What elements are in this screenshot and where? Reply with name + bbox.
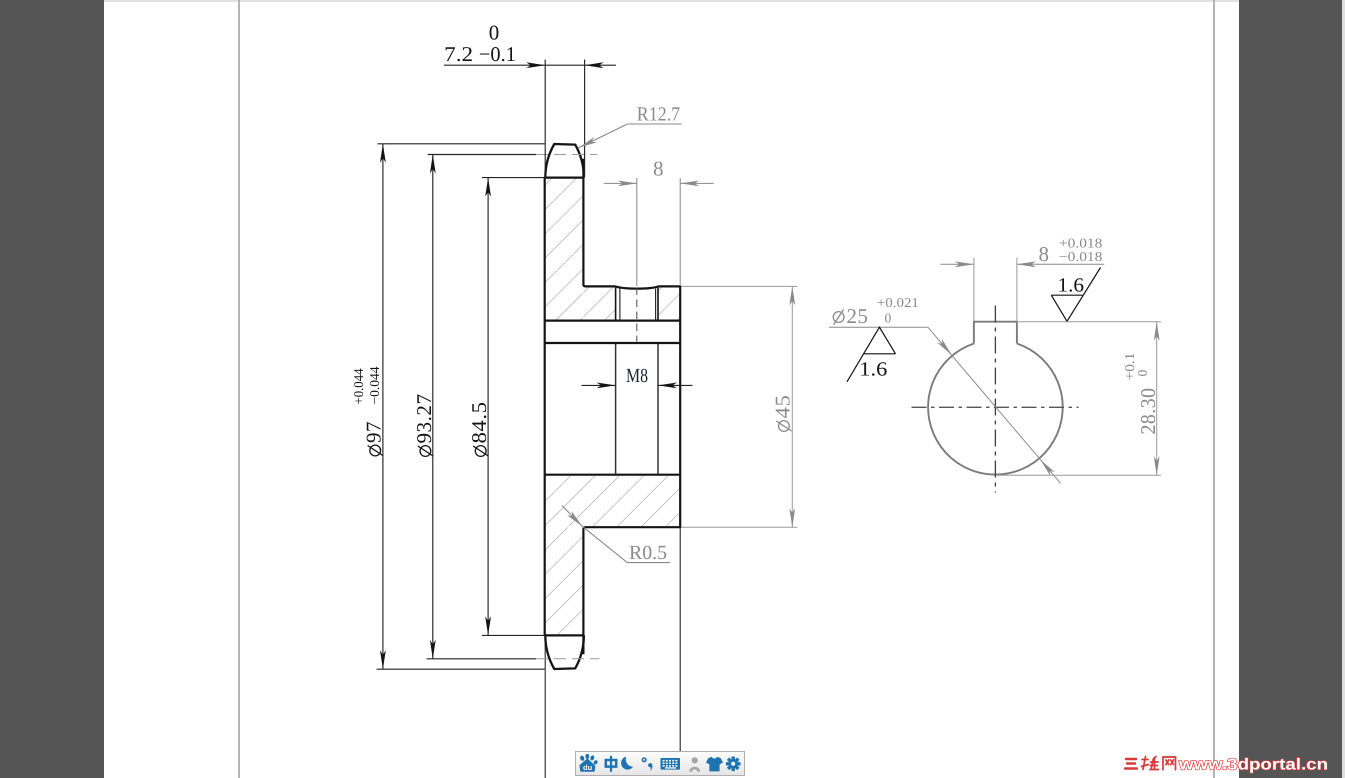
svg-text:7.2: 7.2	[444, 42, 473, 66]
top sprocket tooth profile	[545, 144, 584, 178]
bore top edge line	[545, 342, 681, 344]
dimension D25: label "D25 +0.021/0"	[833, 312, 844, 323]
svg-text:1.6: 1.6	[1058, 275, 1085, 297]
surface finish 1.6 (bore)	[847, 327, 896, 382]
right gray sidebar	[1239, 0, 1345, 778]
hatching: hub upper left of M8 hole	[583, 287, 615, 319]
svg-text:R0.5: R0.5	[629, 542, 667, 564]
dimension M8: dimension line with outside arrows	[582, 384, 616, 386]
dimension 8 keyway: extension lines	[973, 258, 975, 322]
right view: bore circle D25 with keyway gap	[928, 344, 1063, 475]
dimension 8: dimension line with outside arrows	[604, 182, 637, 184]
svg-text:du: du	[583, 763, 593, 772]
hatching: hub lower section	[546, 476, 680, 527]
dimension 7.2: dimension line with outside arrows	[444, 64, 616, 66]
web left face	[544, 178, 546, 636]
dimension D84.5: dimension line with arrows	[487, 178, 489, 636]
dimension 28.30: dimension line with arrows	[1156, 322, 1158, 476]
dimension D45: dimension line with arrows	[791, 286, 793, 527]
svg-text:−0.044: −0.044	[367, 366, 382, 404]
scrollbar sliver at far right	[1342, 0, 1345, 778]
svg-text:93.27: 93.27	[412, 394, 436, 444]
dimension 28.30: extension lines	[1017, 321, 1161, 323]
IME toolbar	[575, 751, 745, 776]
bottom sprocket tooth profile	[545, 635, 584, 669]
dimension D45: extension lines	[681, 285, 797, 287]
left gray sidebar	[0, 0, 104, 778]
svg-text:0: 0	[885, 311, 892, 326]
dimension 8 (hole to face): extension lines	[636, 178, 638, 286]
leader R12.7	[578, 124, 627, 148]
top edge strip	[0, 0, 1345, 2]
top tooth root line	[545, 177, 584, 179]
svg-text:25: 25	[847, 304, 869, 328]
svg-text:8: 8	[1039, 242, 1050, 266]
svg-text:28.30: 28.30	[1136, 388, 1160, 435]
dimension D84.5: label rotated	[467, 402, 491, 457]
wire: extension line from tooth left face to page bottom	[544, 635, 546, 778]
bore bottom edge line	[545, 474, 681, 476]
wire: extension line from hub right face to page bottom	[679, 527, 681, 752]
svg-text:8: 8	[653, 156, 664, 180]
dimension 28.30: label "28.30 +0.1/0" rotated	[1122, 353, 1160, 435]
svg-text:−0.018: −0.018	[1059, 249, 1103, 264]
hatching: sprocket rim upper section	[546, 179, 583, 320]
svg-text:45: 45	[770, 395, 794, 419]
leader R0.5	[562, 506, 583, 527]
dimension 7.2: extension lines	[544, 60, 546, 179]
svg-text:0: 0	[489, 21, 500, 45]
paper divider line right	[1213, 0, 1215, 778]
dimension D97: extension lines	[378, 143, 545, 145]
dimension D93.27: dimension line with arrows	[432, 155, 434, 659]
svg-text:97: 97	[362, 421, 386, 443]
svg-text:+0.018: +0.018	[1059, 235, 1103, 250]
svg-text:84.5: 84.5	[467, 402, 491, 444]
M8 hole major thread lines	[615, 288, 617, 321]
dimension D97: label "D97 +0.044/-0.044" rotated	[351, 366, 386, 456]
M8 hole centerline	[636, 288, 638, 342]
svg-text:0: 0	[1135, 370, 1150, 377]
hatching: hub upper right of M8 hole	[658, 287, 679, 319]
svg-text:−0.1: −0.1	[479, 42, 516, 66]
right view: vertical centerline	[994, 306, 996, 493]
hatching: rim lower section	[546, 527, 583, 634]
dimension D84.5: extension lines	[482, 177, 545, 179]
dimension 8 keyway: dimension line with outside arrows	[940, 263, 974, 265]
svg-text:R12.7: R12.7	[637, 104, 681, 126]
surface finish 1.6 (keyway top)	[1051, 268, 1100, 322]
web right face upper / hub top face / hub right face / hub bottom face / web right face lower	[583, 159, 680, 655]
bottom tooth root line	[545, 634, 584, 636]
dimension D93.27: extension line (pitch) + dashed pitch lines	[428, 154, 536, 156]
svg-text:1.6: 1.6	[859, 359, 887, 381]
dimension D45: label rotated	[770, 395, 794, 432]
paper divider line left	[238, 0, 240, 778]
M8 hole minor thread lines	[619, 289, 621, 321]
svg-text:+0.044: +0.044	[351, 368, 366, 404]
dimension M8: extension lines	[615, 344, 617, 474]
dimension D25: leader through circle	[829, 326, 928, 328]
dimension D97: dimension line with arrows	[382, 144, 384, 669]
svg-text:+0.021: +0.021	[877, 295, 919, 310]
right view: keyway profile	[974, 322, 1017, 344]
right view: horizontal centerline	[912, 406, 1079, 408]
dimension D93.27: label rotated	[412, 394, 436, 457]
keyway bottom edge line	[545, 320, 681, 322]
watermark 3dportal	[1122, 753, 1334, 775]
svg-text:M8: M8	[626, 365, 648, 387]
svg-text:www.3dportal.cn: www.3dportal.cn	[1178, 757, 1328, 774]
